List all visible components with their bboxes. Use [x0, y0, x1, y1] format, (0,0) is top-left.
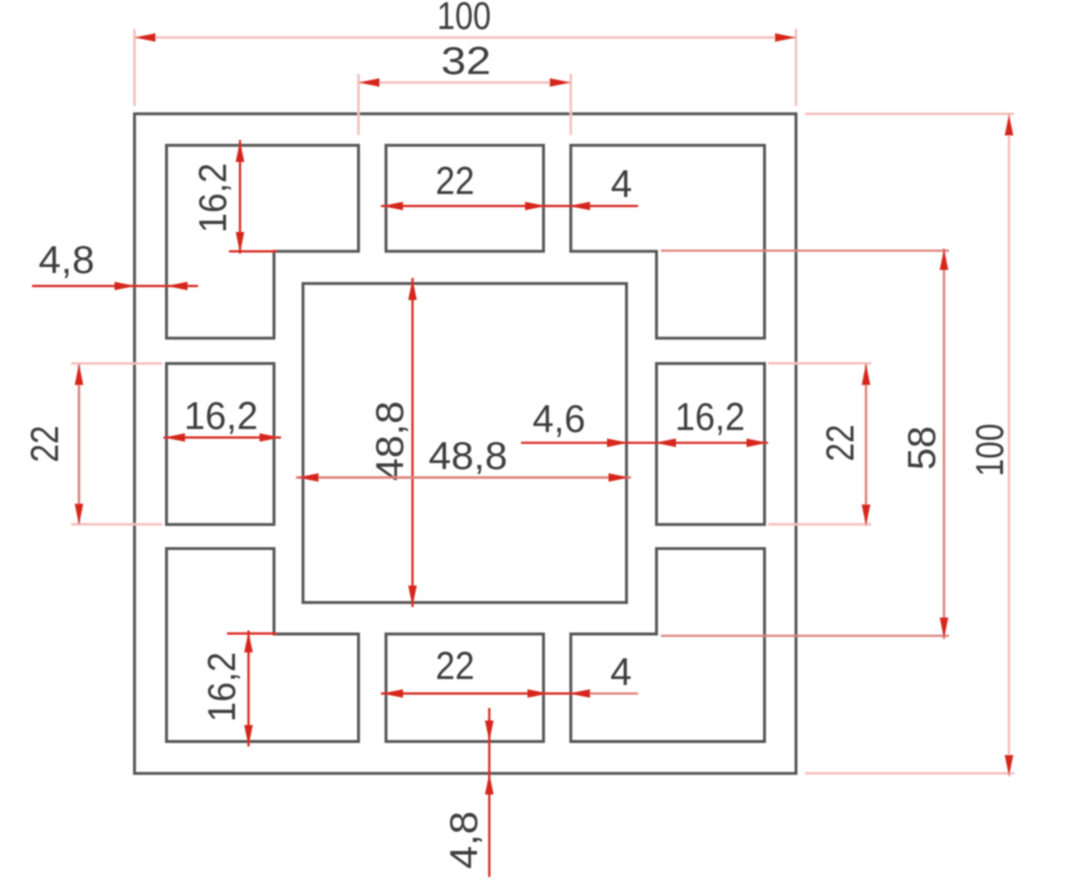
dimension 22 (top-middle pocket width) and 4 (top rib)	[381, 160, 638, 210]
svg-text:22: 22	[820, 425, 863, 462]
outer square 100x100 profile	[135, 114, 797, 774]
svg-text:58: 58	[901, 426, 944, 470]
svg-text:22: 22	[24, 426, 67, 463]
svg-text:4,8: 4,8	[443, 811, 486, 869]
svg-text:100: 100	[437, 0, 491, 38]
svg-text:16,2: 16,2	[184, 395, 258, 438]
svg-text:22: 22	[436, 160, 475, 203]
central square hole 48,8 x 48,8	[303, 284, 627, 603]
top-left corner pocket (L-shape)	[167, 145, 359, 338]
bottom-middle pocket	[386, 634, 544, 742]
svg-text:4,8: 4,8	[39, 239, 95, 282]
dimension 16,2 (top-left pocket band height)	[192, 140, 277, 254]
svg-text:4: 4	[610, 651, 631, 694]
dimension 4,8 (left wall thickness)	[32, 239, 198, 290]
svg-text:48,8: 48,8	[429, 435, 508, 478]
dimension 4,8 (bottom wall thickness)	[443, 708, 494, 877]
dimension 16,2 (bottom-left pocket band height)	[201, 631, 277, 747]
svg-text:32: 32	[441, 40, 491, 83]
dimension 22 (middle-right pocket height, right side)	[768, 363, 872, 526]
bottom-left corner pocket (L-shape)	[167, 549, 359, 742]
middle-right pocket	[657, 364, 765, 525]
dimension 22 (middle-left pocket height, left side)	[24, 363, 162, 525]
dimension 32 (top opening between corner pockets)	[359, 40, 571, 135]
svg-text:100: 100	[969, 424, 1012, 477]
top-middle pocket	[386, 145, 544, 251]
middle-left pocket	[167, 364, 275, 525]
svg-text:16,2: 16,2	[192, 163, 235, 233]
dimension 100 (top overall width)	[135, 0, 797, 106]
dimension 22 (bottom-middle pocket width) and 4 (bottom rib)	[381, 645, 638, 698]
svg-text:16,2: 16,2	[201, 652, 244, 722]
dimension 48,8 (central hole width, horizontal)	[296, 435, 631, 482]
top-right corner pocket (L-shape)	[571, 145, 765, 338]
dimension 16,2 (middle-left pocket width)	[164, 395, 282, 442]
dimension 58 (between notch edges, right side)	[661, 249, 949, 640]
svg-text:48,8: 48,8	[369, 401, 412, 481]
dimension 100 (right overall height)	[805, 114, 1014, 777]
svg-text:4,6: 4,6	[533, 398, 586, 441]
dimension 48,8 (central hole height, vertical)	[369, 278, 417, 607]
bottom-right corner pocket (L-shape)	[571, 549, 765, 742]
svg-text:22: 22	[436, 645, 475, 688]
svg-text:16,2: 16,2	[675, 396, 745, 439]
svg-text:4: 4	[611, 163, 632, 206]
dimension 4,6 (right rib) and 16,2 (middle-right pocket width)	[521, 396, 768, 447]
